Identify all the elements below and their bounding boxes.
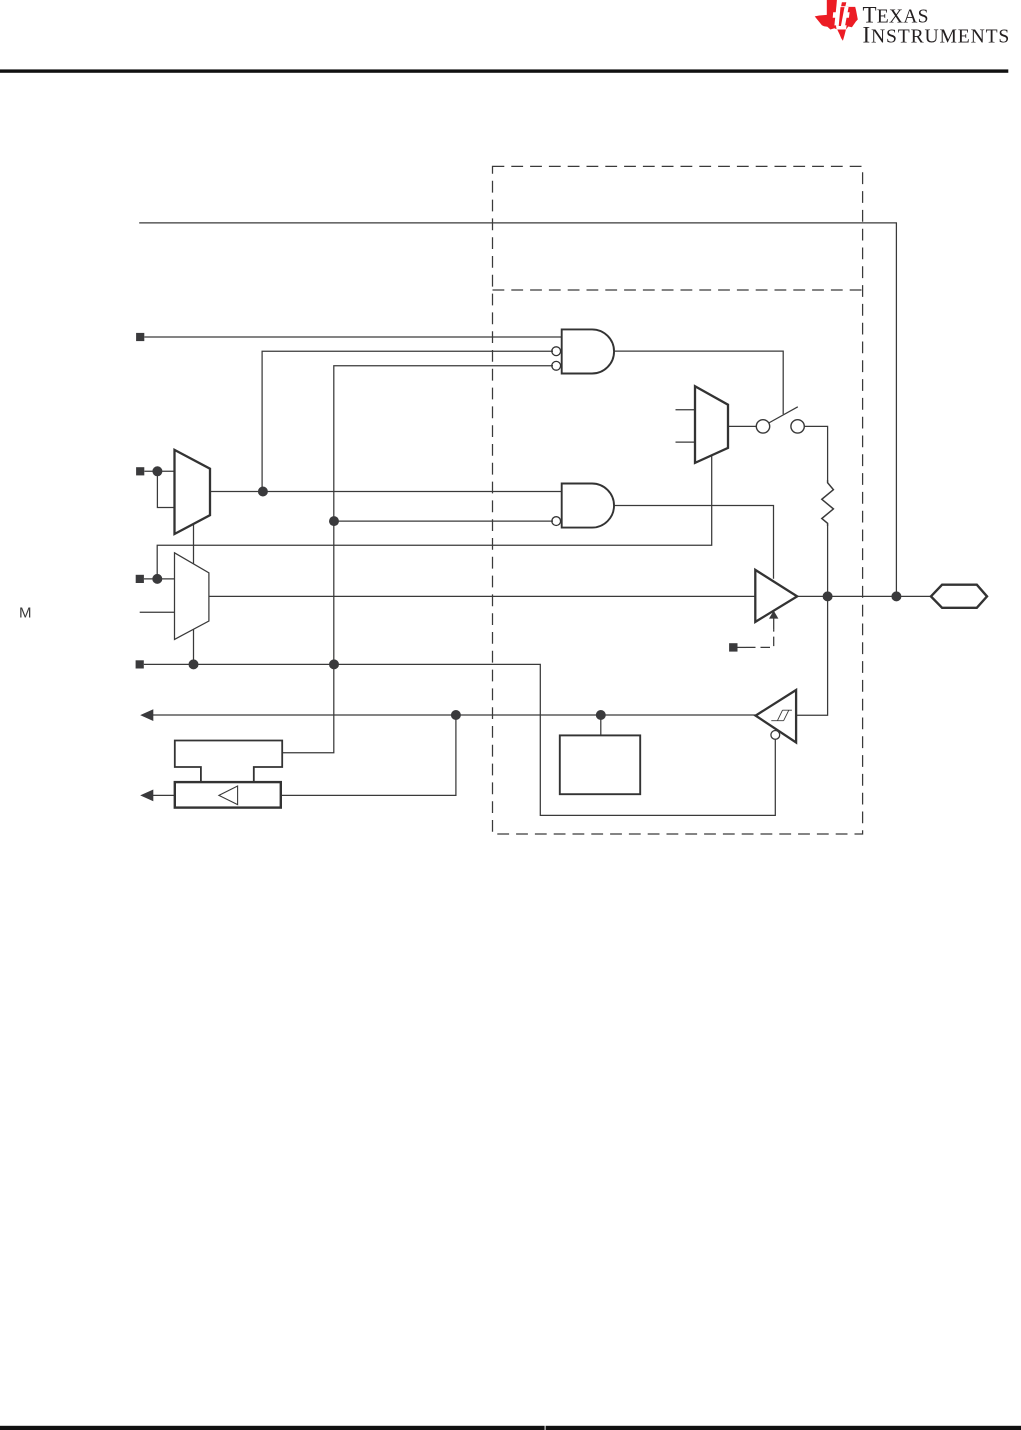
switch contacts	[756, 420, 804, 433]
wire: NAND1 input 3 / long vertical bus	[282, 366, 553, 753]
wire: NAND1 output	[614, 351, 783, 414]
wire: mux3 input 1	[144, 578, 175, 580]
arrowheads	[140, 611, 778, 802]
node dot	[823, 591, 833, 601]
terminal	[136, 575, 144, 583]
box B1 (bus keeper, tab shape)	[175, 741, 282, 783]
node dot	[189, 659, 199, 669]
wire: mux2 select	[157, 455, 712, 579]
mux U2 (right, bold)	[695, 386, 728, 463]
dashed divider	[493, 289, 863, 291]
wire: mux1 feedback	[157, 471, 174, 507]
terminal (enable, dashed net)	[729, 643, 737, 651]
header rule	[0, 69, 1008, 72]
dashed module box	[493, 166, 863, 834]
arrow out left (box2)	[140, 790, 153, 802]
svg-text:TEXAS: TEXAS	[863, 3, 929, 28]
node dot	[451, 710, 461, 720]
wire: switch to resistor	[804, 426, 827, 480]
TI logo red Texas map	[815, 0, 858, 41]
terminal squares	[136, 333, 738, 669]
wire: mux3 output to output buffer	[209, 595, 755, 597]
wire: mux2 input stubs	[676, 409, 696, 411]
output buffer U4	[755, 570, 797, 622]
triangle in box B2	[219, 786, 238, 805]
node dot	[152, 574, 162, 584]
mux U1 (top left, bold)	[175, 450, 211, 534]
wire: box2 output net	[152, 794, 175, 796]
wire: mux1 output to NAND2 input1	[210, 491, 562, 493]
wire: resistor to pad net and Schmitt input	[796, 526, 828, 715]
wire: buffer output to pad	[797, 595, 931, 597]
node dot	[329, 516, 339, 526]
wire: NAND2 output to buffer enable	[614, 506, 773, 579]
bottom rule	[0, 1426, 545, 1430]
terminal	[136, 660, 144, 668]
NAND gate G2	[552, 484, 614, 528]
wire: NAND1 input 1	[144, 336, 561, 338]
wire: lower input net	[144, 664, 776, 815]
mux U3 (lower left, thin)	[175, 553, 209, 640]
resistor R	[822, 480, 834, 526]
NAND gate G1	[552, 329, 614, 373]
wire: mux2 output to switch	[728, 425, 756, 427]
wire: stub to flag box	[600, 715, 602, 735]
enable bubble	[771, 731, 780, 740]
node dot	[329, 659, 339, 669]
wire: top net	[139, 223, 896, 597]
node dot	[152, 466, 162, 476]
hysteresis symbol	[771, 710, 792, 721]
box B3 (flag latch)	[560, 735, 640, 794]
wire: Schmitt output net	[152, 714, 756, 716]
svg-text:M: M	[19, 605, 32, 622]
arrow out left (input direction)	[140, 709, 153, 721]
node dot	[891, 591, 901, 601]
wire: mux3 input 2	[140, 611, 175, 613]
terminal	[136, 333, 144, 341]
node dot	[596, 710, 606, 720]
wire: mux1 input	[144, 470, 174, 472]
junction dots	[152, 466, 901, 720]
svg-text:INSTRUMENTS: INSTRUMENTS	[863, 22, 1011, 47]
wire: NAND2 input 2	[334, 520, 553, 522]
box B2 (with direction triangle, bold)	[175, 782, 281, 808]
terminal	[136, 467, 144, 475]
wire: select vertical through muxes	[193, 524, 195, 564]
switch lever	[769, 407, 798, 423]
pad hexagon	[931, 585, 987, 608]
Schmitt trigger U5	[756, 690, 797, 743]
TI logo wordmark	[863, 3, 1011, 48]
wire: NAND1 input 2	[262, 351, 553, 491]
buffer enable arrowhead	[769, 611, 778, 619]
node dot	[258, 487, 268, 497]
dashed enable net	[738, 618, 774, 648]
